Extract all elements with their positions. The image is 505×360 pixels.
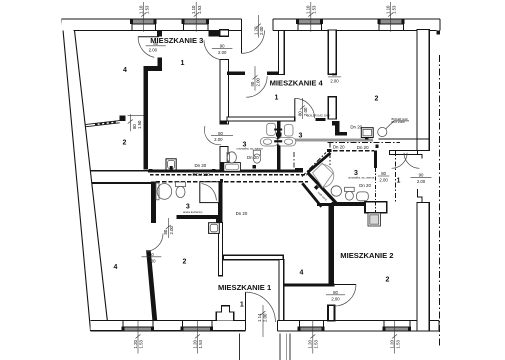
svg-text:1.20: 1.20 bbox=[133, 340, 138, 349]
window W3 top hatch bbox=[298, 20, 322, 24]
pier recess notch bbox=[220, 30, 229, 37]
svg-text:4: 4 bbox=[114, 264, 118, 271]
wall M3 bottom / corridor top bbox=[90, 170, 148, 172]
door hinge stub M2 bottom bbox=[328, 305, 335, 320]
svg-text:3: 3 bbox=[299, 133, 303, 140]
riser on bathroom divider bbox=[276, 133, 281, 137]
pipe dash-dot vertical left of diagonal bbox=[293, 152, 295, 168]
svg-text:2: 2 bbox=[123, 140, 127, 147]
tiny annotations bbox=[183, 114, 409, 214]
twin basin pill left bbox=[260, 138, 278, 147]
wall M2 corridor outer diagonal bbox=[302, 183, 321, 207]
dim M1 entrance bbox=[257, 305, 268, 337]
door M3 room4 leaf bbox=[138, 36, 159, 38]
wall M1 bathroom right bbox=[218, 181, 222, 223]
door M1 entrance arc bbox=[246, 292, 276, 322]
wall corner at M3 shower bbox=[220, 162, 224, 172]
window W4 top hatch bbox=[379, 20, 403, 24]
svg-text:2.00: 2.00 bbox=[218, 50, 227, 55]
pier underhang left of recess bbox=[208, 30, 220, 36]
svg-text:1.53: 1.53 bbox=[391, 5, 396, 14]
wall M2 bathroom bottom bbox=[331, 202, 377, 206]
svg-text:1: 1 bbox=[275, 95, 279, 102]
door M2 room2 arc bbox=[334, 285, 356, 307]
boiler leader line bbox=[386, 121, 409, 129]
shower M2 bath (rotated tray) bbox=[313, 163, 333, 187]
svg-text:1.20: 1.20 bbox=[253, 26, 258, 35]
toilet M2 bath bbox=[345, 187, 355, 191]
svg-text:2.00: 2.00 bbox=[263, 313, 268, 322]
svg-text:Dn 20: Dn 20 bbox=[350, 125, 362, 130]
wall stub M4 hall right of door bbox=[267, 72, 281, 76]
dim window W1 bbox=[139, 2, 150, 32]
shower tray M1 lower bbox=[209, 223, 220, 234]
window W1 top hatch bbox=[132, 20, 156, 24]
bottom window B1 ticks and jambs bbox=[122, 321, 153, 331]
wall top band edges bbox=[62, 19, 440, 30]
svg-text:MIESZKANIE 2: MIESZKANIE 2 bbox=[340, 251, 393, 260]
riser square C bbox=[253, 165, 256, 168]
wall M3 rooms 4/1 jog bbox=[144, 66, 162, 71]
hinge block on diagonal bbox=[314, 185, 319, 190]
svg-text:1.53: 1.53 bbox=[139, 340, 144, 349]
pipe PCV110 main dashed bbox=[150, 174, 307, 176]
door M4 hall arc bbox=[246, 76, 267, 97]
wall M3 rooms 4/2 partition double line bbox=[85, 121, 120, 127]
svg-text:2.00: 2.00 bbox=[149, 47, 158, 52]
svg-text:Dn 20: Dn 20 bbox=[333, 144, 345, 149]
pipe dash-dot gas bbox=[328, 142, 401, 144]
svg-text:4: 4 bbox=[123, 67, 127, 74]
wall left exterior (tapered) bbox=[62, 19, 107, 331]
bidet M2 bath bbox=[357, 192, 369, 201]
dim fraction M2 entrance bbox=[411, 173, 432, 184]
svg-text:2.00: 2.00 bbox=[256, 78, 261, 87]
kitchen sink M2 bbox=[368, 213, 381, 226]
svg-text:2.00: 2.00 bbox=[147, 258, 156, 263]
riser square B bbox=[212, 169, 215, 172]
dim fraction M4 door bbox=[212, 43, 233, 54]
dim fraction M3 room4 door bbox=[146, 41, 166, 52]
wall M4 rooms 1/2 lower (double) bbox=[328, 97, 336, 119]
svg-text:90: 90 bbox=[220, 43, 225, 48]
wall M2 hall top (white band with step) bbox=[390, 150, 418, 154]
svg-text:80: 80 bbox=[381, 171, 386, 176]
wall M1 rooms 4/2 slanted bbox=[146, 250, 157, 320]
riser square E bbox=[375, 145, 378, 148]
wall M4 boiler-room bottom thin line bbox=[379, 138, 430, 140]
svg-text:2.00: 2.00 bbox=[259, 26, 264, 35]
bottom window B3 hatch bbox=[299, 327, 323, 330]
svg-text:1.53: 1.53 bbox=[197, 5, 202, 14]
pipe diagonal dash-dot bbox=[302, 153, 326, 177]
wall M1 bathroom left bbox=[151, 182, 156, 224]
svg-text:80: 80 bbox=[332, 72, 337, 77]
wall divider M1/M2 vertical (white) bbox=[279, 260, 284, 321]
right wall lower white band bbox=[417, 202, 429, 331]
twin basin pill right bbox=[278, 138, 296, 147]
svg-text:80: 80 bbox=[218, 131, 223, 136]
svg-text:2.00: 2.00 bbox=[417, 179, 426, 184]
svg-text:BOILER GAZ. EKO: BOILER GAZ. EKO bbox=[307, 114, 330, 118]
svg-text:2.00: 2.00 bbox=[379, 178, 388, 183]
pipe dash-dot vertical at M2 hall bbox=[395, 151, 397, 203]
svg-text:1.53: 1.53 bbox=[395, 340, 400, 349]
property dash-dot line right bbox=[439, 55, 441, 346]
dim M4 bath door bbox=[297, 98, 308, 119]
svg-text:2.00: 2.00 bbox=[169, 226, 174, 235]
top-right corner return bbox=[437, 30, 440, 34]
svg-text:1.10: 1.10 bbox=[386, 5, 391, 14]
wall M4 step 1 bbox=[332, 121, 340, 125]
wall bottom band right of entrance opening bbox=[278, 321, 439, 332]
wall M4 step 3 bbox=[340, 132, 348, 135]
wall M3 rooms 4/1 upper stub bbox=[158, 58, 162, 66]
svg-text:Dn 20: Dn 20 bbox=[247, 155, 259, 160]
svg-text:umywalka, wc, wanna: umywalka, wc, wanna bbox=[237, 146, 264, 150]
wall M1 rooms 2/1 (double) bbox=[218, 223, 222, 276]
door M3 balcony arc bbox=[242, 30, 265, 53]
window W2 top hatch bbox=[183, 20, 208, 24]
wall M2 bathroom diagonal upper bbox=[308, 153, 331, 173]
svg-text:1.53: 1.53 bbox=[314, 340, 319, 349]
divider cross tick lower bbox=[274, 140, 282, 142]
hall top step lines bbox=[418, 155, 422, 159]
pipe dash-dot vertical at M4 bbox=[329, 143, 331, 165]
riser square D bbox=[365, 136, 369, 140]
wall post end of partition bbox=[120, 115, 126, 121]
wall M2 bathroom diagonal lower bbox=[308, 173, 337, 203]
wall M4 rooms 1/2 upper (double) bbox=[328, 30, 336, 74]
wall M3 bathroom left upper (white) bbox=[220, 60, 228, 125]
svg-text:1.53: 1.53 bbox=[144, 5, 149, 14]
pipe dashed M2 bathroom top bbox=[333, 150, 374, 152]
svg-text:MIESZKANIE 1: MIESZKANIE 1 bbox=[218, 283, 272, 292]
window W2 ticks and jambs bbox=[182, 20, 209, 30]
door M3 bathroom arc bbox=[204, 126, 221, 145]
window W3 ticks and jambs bbox=[297, 20, 323, 30]
wall stub M4 hall left of door bbox=[227, 72, 245, 76]
dim balcony door bbox=[253, 15, 264, 38]
right wall upper white band bbox=[417, 29, 429, 150]
riser square F bbox=[220, 179, 223, 182]
wall M1 top thin left segment bbox=[92, 182, 156, 184]
boiler M4 circle bbox=[378, 127, 387, 136]
steps outside M1 entrance bbox=[240, 334, 290, 360]
svg-text:2: 2 bbox=[375, 96, 379, 103]
room numbers M3 bbox=[114, 60, 401, 308]
dim window W3 bbox=[306, 2, 317, 32]
svg-text:2.00: 2.00 bbox=[330, 78, 339, 83]
dim bottom window B1 bbox=[133, 321, 144, 354]
wall corner at M3 bath top-left bbox=[220, 121, 227, 124]
toilet M3 bath bbox=[253, 150, 260, 155]
dim bottom window B2 bbox=[192, 321, 203, 354]
wall stub M1 below bathroom bbox=[216, 215, 222, 223]
toilet M1 bath bbox=[175, 182, 185, 187]
svg-text:EKO 24kW: EKO 24kW bbox=[392, 120, 406, 124]
svg-text:80: 80 bbox=[333, 290, 338, 295]
washing machine M4 bbox=[361, 128, 373, 138]
svg-text:80: 80 bbox=[163, 229, 168, 234]
pilaster stub black below top band bbox=[157, 30, 162, 36]
door M1 bathroom arc bbox=[146, 234, 163, 252]
dim fraction M3 bath door bbox=[211, 131, 233, 142]
dim bottom window B4 bbox=[390, 321, 401, 354]
right wall entrance recess bottom step bbox=[417, 189, 429, 202]
svg-text:2.00: 2.00 bbox=[214, 137, 223, 142]
dim fraction M4 rooms1/2 door bbox=[328, 72, 341, 83]
wall M3 bathroom left lower (white) bbox=[220, 147, 228, 171]
dim fraction M2 room2 door bbox=[326, 290, 345, 301]
svg-text:80: 80 bbox=[297, 111, 302, 116]
radiator dashes on partition bbox=[95, 122, 116, 124]
svg-text:Dn 20: Dn 20 bbox=[357, 145, 369, 150]
svg-text:PCV 110: PCV 110 bbox=[193, 172, 211, 177]
svg-text:3: 3 bbox=[186, 203, 190, 210]
door M3 balcony leaf bbox=[241, 30, 243, 53]
svg-text:1.50: 1.50 bbox=[137, 120, 142, 129]
door M4 bathroom leaf bbox=[294, 98, 296, 118]
svg-text:1: 1 bbox=[240, 301, 244, 308]
svg-text:umywalka, wc, wanna: umywalka, wc, wanna bbox=[348, 176, 375, 180]
washbasin M1 bath bbox=[157, 184, 172, 200]
pipe gray band M4 bbox=[295, 139, 373, 142]
svg-text:1.20: 1.20 bbox=[308, 340, 313, 349]
wall connecting steps to bathroom bottom bbox=[317, 203, 332, 206]
svg-text:2: 2 bbox=[183, 258, 187, 265]
svg-text:1.10: 1.10 bbox=[191, 5, 196, 14]
svg-text:1.53: 1.53 bbox=[312, 5, 317, 14]
wall M1 top dashed (pipe wall) bbox=[156, 181, 308, 183]
svg-text:1: 1 bbox=[397, 178, 401, 185]
svg-text:Dn 20: Dn 20 bbox=[359, 183, 371, 188]
dim bottom window B3 bbox=[308, 321, 319, 354]
wall divider M3/M4 bathrooms bbox=[277, 120, 281, 171]
wall M2 room2 left bbox=[329, 206, 334, 283]
dim window W2 bbox=[191, 2, 202, 32]
wall M2 rooms 4/2 horizontal bbox=[284, 284, 334, 287]
svg-text:MIESZKANIE 3: MIESZKANIE 3 bbox=[150, 36, 203, 45]
svg-text:1.20: 1.20 bbox=[192, 340, 197, 349]
svg-text:1.10: 1.10 bbox=[139, 5, 144, 14]
bottom window B1 hatch bbox=[123, 327, 153, 330]
svg-text:1.53: 1.53 bbox=[198, 340, 203, 349]
wall top band right of balcony-door opening bbox=[273, 19, 440, 30]
door M1 entrance leaf bbox=[245, 292, 247, 322]
riser square A bbox=[149, 169, 152, 172]
wall M4 hall bottom right of door bbox=[316, 118, 326, 121]
door M3 room1 top arc bbox=[204, 40, 220, 59]
svg-text:4: 4 bbox=[300, 270, 304, 277]
wall pier M2 hall bottom (white) bbox=[365, 202, 387, 213]
svg-text:Dn 20: Dn 20 bbox=[236, 211, 248, 216]
wall divider M1/M2 horizontal (double) bbox=[224, 255, 284, 259]
washbasin M3 bath bbox=[227, 152, 236, 163]
divider cross tick upper bbox=[274, 129, 282, 131]
wall M4 step 2 bbox=[335, 126, 339, 136]
svg-text:90: 90 bbox=[419, 173, 424, 178]
svg-text:1.10: 1.10 bbox=[306, 5, 311, 14]
bottom window B2 hatch bbox=[182, 327, 212, 330]
bottom window B2 ticks and jambs bbox=[181, 321, 213, 331]
wall top band left of balcony-door opening bbox=[62, 19, 242, 30]
svg-text:MIESZKANIE 4: MIESZKANIE 4 bbox=[270, 79, 324, 88]
svg-text:1.20: 1.20 bbox=[390, 340, 395, 349]
svg-text:80: 80 bbox=[149, 252, 154, 257]
washbasin M4 bath north (rounded square) bbox=[285, 125, 294, 137]
bottom window B3 ticks and jambs bbox=[298, 321, 324, 331]
svg-text:Dn 20: Dn 20 bbox=[195, 163, 207, 168]
dim M4 hall door bbox=[250, 66, 261, 91]
wall M1 bathroom bottom bbox=[177, 215, 221, 219]
bottom window B4 hatch bbox=[384, 327, 410, 330]
chimney pier above bottom band bbox=[216, 306, 233, 321]
svg-text:1: 1 bbox=[181, 60, 185, 67]
door M2 room2 leaf bbox=[334, 284, 356, 286]
shower tray M3 bath bbox=[224, 163, 241, 172]
door M4 bathroom arc bbox=[295, 98, 315, 118]
pipe labels bbox=[193, 125, 372, 216]
door M3 room4 arc bbox=[138, 37, 154, 58]
dim fraction M2 bath door bbox=[378, 171, 390, 182]
wall M4 hall bottom left of door (double) bbox=[227, 117, 295, 121]
svg-text:2: 2 bbox=[386, 277, 390, 284]
svg-text:aneks kuchenny: aneks kuchenny bbox=[183, 210, 203, 214]
wall M3 rooms 4/1 vertical bbox=[144, 71, 148, 170]
riser at M2 bathroom top corner bbox=[327, 149, 332, 152]
dim M1 bath door bbox=[163, 218, 174, 238]
svg-text:2.00: 2.00 bbox=[331, 296, 340, 301]
shower tray M3 room1 bbox=[166, 159, 176, 170]
dim window W4 bbox=[386, 2, 397, 32]
svg-text:90: 90 bbox=[250, 81, 255, 86]
wall M2 bathroom/hall dashed bbox=[374, 151, 377, 168]
wall divider M3/M4 top (white) bbox=[278, 30, 284, 74]
bottom window B4 ticks and jambs bbox=[383, 321, 411, 331]
svg-text:1.14: 1.14 bbox=[257, 313, 262, 322]
door M2 entrance left leaf arc bbox=[392, 153, 408, 169]
wall bottom band edges bbox=[91, 321, 439, 332]
shower M1 bath bbox=[200, 182, 219, 203]
window W1 ticks and jambs bbox=[131, 20, 157, 30]
door M2 entrance right leaf arc bbox=[404, 153, 420, 169]
washbasin M2 bath round bbox=[331, 186, 341, 196]
wall stub at diagonal corner bbox=[295, 168, 303, 172]
dim M3 partition 1.50 bbox=[128, 114, 144, 131]
wall bottom band left of entrance opening bbox=[91, 321, 246, 331]
dim fraction M1 rooms door bbox=[142, 252, 162, 263]
window W4 ticks and jambs bbox=[378, 20, 404, 30]
washbasin M3 bath north (rounded square) bbox=[267, 123, 276, 135]
